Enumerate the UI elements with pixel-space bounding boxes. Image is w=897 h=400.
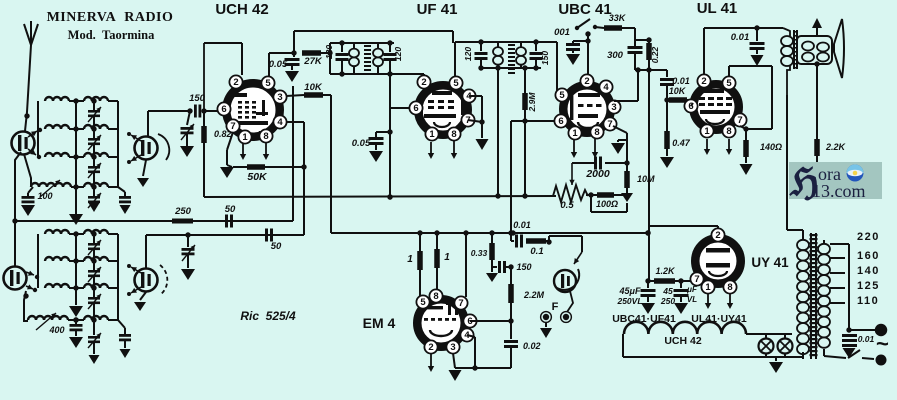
resistor 0.33 bbox=[489, 230, 494, 235]
tube UCH42 pin 1 bbox=[238, 130, 251, 143]
svg-text:33K: 33K bbox=[609, 13, 627, 23]
trimmer C1 top bank bbox=[93, 101, 95, 110]
svg-text:140: 140 bbox=[857, 265, 880, 277]
tube UF41 pin 4 bbox=[462, 89, 475, 102]
resistor 0.1 bbox=[526, 238, 546, 244]
tube UCH42 pin 4 bbox=[273, 115, 286, 128]
wire plate UBC41 bbox=[614, 100, 638, 102]
svg-text:250VL: 250VL bbox=[616, 296, 642, 306]
wire S1b to grid node bbox=[147, 111, 149, 137]
svg-text:0.22: 0.22 bbox=[650, 46, 660, 63]
coil L1b variable bbox=[84, 97, 108, 101]
tap 160 bbox=[830, 257, 845, 259]
wire row2 top bank bbox=[69, 128, 84, 130]
trimmer to ground bbox=[187, 111, 190, 125]
potentiometer 0.5 zigzag bbox=[553, 185, 588, 202]
wire lamp bottoms bbox=[623, 356, 803, 358]
terminal 2 bbox=[876, 355, 887, 366]
svg-text:400: 400 bbox=[48, 325, 64, 335]
wire 29M to UBC grid bbox=[525, 120, 555, 122]
capacitor 300 bbox=[628, 46, 643, 49]
wire AVC 250 line bbox=[15, 220, 293, 222]
wire UL41 grid bbox=[691, 103, 693, 106]
IF2 capacitor left 120 bbox=[480, 42, 482, 51]
wire UY41 pin7 bbox=[696, 282, 698, 285]
trimmer C3 top bank bbox=[93, 157, 95, 166]
resistor 2.2K bbox=[814, 139, 820, 156]
tube UCH42 envelope bbox=[226, 83, 280, 137]
resistor 1 (b) bbox=[436, 233, 438, 249]
svg-text:140Ω: 140Ω bbox=[760, 142, 782, 152]
wire to tone knob bbox=[548, 236, 550, 242]
wire row4 top bank bbox=[71, 186, 84, 188]
pilot lamp 1 bbox=[759, 339, 774, 354]
filament arrows UBC41 bbox=[573, 140, 575, 153]
resistor 0.22 bbox=[648, 40, 650, 43]
tap 125 bbox=[830, 287, 845, 289]
filament arrows UY41 bbox=[707, 294, 709, 304]
resistor 100ohm bbox=[586, 194, 597, 196]
trimmer row4 bottom bbox=[93, 320, 95, 335]
wiper arrow 2000 bbox=[571, 163, 573, 185]
wire EM4 pin6 bbox=[470, 320, 511, 322]
svg-text:UY 41: UY 41 bbox=[751, 255, 789, 270]
svg-text:220: 220 bbox=[857, 231, 880, 243]
resistor 27K bbox=[302, 50, 321, 56]
ground S2b bbox=[140, 292, 146, 300]
wire 10k down to bus bbox=[330, 95, 332, 233]
svg-text:10K: 10K bbox=[304, 82, 323, 93]
coil L4a bbox=[31, 183, 71, 187]
tube UCH42 pin 7 bbox=[226, 119, 239, 132]
resistor 1 (a) bbox=[419, 233, 421, 251]
wire heater left bbox=[622, 334, 624, 357]
resistor 50K bbox=[233, 166, 247, 168]
IF1 capacitor left 120 bbox=[341, 43, 343, 52]
filament arrows UCH42 bbox=[242, 143, 244, 155]
tube UY41 pin 8 bbox=[723, 280, 736, 293]
power transformer core bbox=[810, 233, 812, 359]
tube UBC41 electrodes bbox=[570, 92, 573, 120]
svg-text:100: 100 bbox=[37, 191, 52, 201]
svg-text:0.02: 0.02 bbox=[523, 341, 541, 351]
capacitor right column bbox=[118, 187, 125, 192]
tube UBC41 pin 2 bbox=[580, 74, 593, 87]
coil L2b variable bbox=[84, 125, 108, 129]
svg-text:001: 001 bbox=[554, 27, 570, 38]
tube UCH42 pin 8 bbox=[259, 129, 272, 142]
trimmer arrow C7 bbox=[88, 294, 101, 309]
svg-text:1: 1 bbox=[572, 128, 578, 139]
wire S2a to row4 bbox=[24, 291, 28, 321]
resistor 1.2K bbox=[648, 280, 654, 282]
tube UF41 pin 6 bbox=[409, 101, 422, 114]
IF1 frame bbox=[330, 42, 394, 44]
ground bottom bank bus bbox=[69, 306, 83, 317]
svg-text:45: 45 bbox=[662, 286, 673, 296]
wire tap 220 down bbox=[848, 244, 850, 330]
svg-text:0.47: 0.47 bbox=[672, 138, 691, 148]
svg-text:5: 5 bbox=[559, 90, 565, 101]
wire row1 bottom ext bbox=[148, 234, 304, 236]
svg-text:1: 1 bbox=[444, 252, 450, 263]
mains switch bbox=[824, 356, 846, 358]
svg-text:0.01: 0.01 bbox=[513, 220, 531, 230]
ground 140ohm bbox=[740, 164, 753, 175]
tap 110 bbox=[830, 302, 845, 304]
capacitor 45uF second bbox=[680, 282, 682, 288]
coil L8b bbox=[84, 316, 108, 320]
svg-text:6: 6 bbox=[413, 103, 418, 114]
capacitor 150 low bbox=[492, 266, 497, 268]
tube UL41 pin 8 bbox=[722, 124, 735, 137]
IF1 coil right bbox=[377, 43, 379, 49]
tube UF41 electrodes bbox=[432, 91, 452, 95]
wire heater right bbox=[746, 333, 792, 335]
tube UBC41 pin 3 bbox=[607, 100, 620, 113]
svg-text:2: 2 bbox=[584, 76, 589, 87]
rotary switch S2a bbox=[4, 267, 27, 290]
capacitor 0.05 AVC bbox=[376, 131, 390, 133]
wire feedback loop bbox=[590, 195, 592, 212]
rotary switch S1b bbox=[135, 137, 158, 160]
tube UBC41 pin 8 bbox=[590, 125, 603, 138]
svg-text:6: 6 bbox=[558, 116, 563, 127]
coil L7a bbox=[45, 284, 69, 288]
tube UL41 pin 6 bbox=[684, 99, 697, 112]
arrow row4 coil top bank bbox=[40, 180, 60, 197]
resistor 2.2M bbox=[510, 267, 512, 284]
switch S1b contact arrows bbox=[131, 135, 141, 141]
trimmer arrow C3 bbox=[88, 163, 101, 178]
tube EM4 pin 4 bbox=[460, 328, 473, 341]
IF1 capacitor right 120 bbox=[389, 43, 391, 52]
svg-text:5: 5 bbox=[453, 78, 459, 89]
wire knob to switch bbox=[567, 291, 573, 312]
svg-text:5: 5 bbox=[420, 297, 426, 308]
wire junction y70 bbox=[635, 69, 667, 71]
tube UF41 envelope bbox=[418, 85, 468, 135]
wire row1 top bank bbox=[69, 100, 84, 102]
svg-text:MINERVA RADIO: MINERVA RADIO bbox=[47, 10, 174, 25]
tube UY41 pin 7 bbox=[690, 272, 703, 285]
coil L5b bbox=[84, 230, 108, 234]
wire antenna lead bbox=[25, 45, 31, 131]
svg-text:2.2K: 2.2K bbox=[825, 142, 847, 152]
power transformer right winding bbox=[823, 240, 825, 244]
wire pin7 cathode bbox=[740, 126, 746, 129]
IF2 frame bbox=[455, 41, 557, 43]
tube EM4 pin 6 bbox=[463, 314, 476, 327]
ground EM4 pin3 bbox=[453, 353, 455, 368]
tube UL41 pin 1 bbox=[700, 124, 713, 137]
tube EM4 electrodes bbox=[427, 306, 443, 309]
tap 220 bbox=[830, 243, 849, 245]
svg-text:UL 41: UL 41 bbox=[697, 0, 738, 17]
capacitor 400 row bbox=[73, 317, 78, 322]
IF2 core bbox=[508, 44, 515, 46]
arrow row4 coil bottom bank bbox=[36, 313, 56, 330]
svg-text:160: 160 bbox=[857, 250, 880, 262]
wire row3 top bank bbox=[69, 156, 84, 158]
coil L4b variable bbox=[84, 183, 108, 187]
wire pin2 riser bbox=[587, 33, 589, 75]
trimmer arrow C6 bbox=[88, 267, 101, 282]
IF1 coil left bbox=[353, 43, 355, 49]
trimmer bottom AVC bbox=[187, 235, 189, 247]
capacitor 001 bbox=[573, 40, 588, 42]
wire 29M down x511 bbox=[511, 120, 525, 122]
wire IF2 sec down x498 bbox=[497, 68, 499, 196]
tube UF41 pin 8 bbox=[447, 127, 460, 140]
svg-text:300: 300 bbox=[607, 50, 624, 61]
wire AVC riser x293 bbox=[292, 86, 294, 221]
switch S1a contact arrows bbox=[28, 131, 37, 137]
coil L2a bbox=[45, 125, 69, 129]
wire row5 bbox=[69, 233, 84, 235]
svg-text:0.33: 0.33 bbox=[471, 248, 488, 258]
antenna bbox=[24, 24, 31, 45]
svg-text:0.05: 0.05 bbox=[352, 138, 371, 149]
filament arrows UF41 bbox=[430, 142, 432, 154]
wire right bus top bank bbox=[117, 101, 119, 187]
junction row3 bbox=[73, 154, 78, 159]
svg-text:2.2M: 2.2M bbox=[523, 290, 545, 300]
resistor 10K anode bbox=[286, 95, 304, 96]
svg-text:10M: 10M bbox=[637, 174, 655, 184]
wire IF1 to UF41 grid bbox=[423, 74, 425, 78]
svg-text:120: 120 bbox=[393, 47, 403, 61]
svg-text:7: 7 bbox=[607, 119, 612, 130]
tube UBC41 pin 5 bbox=[555, 88, 568, 101]
filament arrows UL41 bbox=[706, 139, 708, 150]
tube UCH42 pin 3 bbox=[273, 90, 286, 103]
svg-text:45μF: 45μF bbox=[619, 286, 641, 296]
svg-text:EM 4: EM 4 bbox=[363, 315, 396, 331]
svg-text:1: 1 bbox=[704, 126, 710, 137]
tube UF41 pin 5 bbox=[449, 76, 462, 89]
capacitor 100 bbox=[28, 187, 33, 193]
wire AVC x390 bbox=[389, 74, 391, 197]
svg-text:3: 3 bbox=[611, 102, 616, 113]
wire row6 bbox=[69, 260, 84, 262]
IF2 capacitor right 150 bbox=[535, 42, 537, 51]
capacitor 150 series bbox=[187, 108, 192, 113]
tube UF41 pin 1 bbox=[425, 127, 438, 140]
tube UY41 envelope bbox=[695, 238, 741, 284]
svg-text:250: 250 bbox=[660, 296, 675, 306]
svg-text:6: 6 bbox=[221, 104, 226, 115]
svg-text:UBC 41: UBC 41 bbox=[558, 1, 611, 18]
trimmer C5 bottom bank bbox=[93, 234, 95, 243]
resistor 33K bbox=[604, 25, 622, 31]
ground UBC41 cathode bbox=[618, 139, 627, 141]
wire UF41 pin4 bbox=[469, 95, 482, 97]
wire voice coil down bbox=[814, 61, 819, 66]
junction row4 bbox=[73, 184, 78, 189]
rotary switch S1a bbox=[12, 132, 35, 155]
wire pin7 EM4 bbox=[465, 233, 467, 297]
arrow under F switch bbox=[545, 322, 547, 327]
svg-text:VL: VL bbox=[687, 295, 697, 304]
tube UBC41 pin 1 bbox=[568, 126, 581, 139]
output transformer secondary voice coil bbox=[797, 36, 832, 64]
junction pot right bbox=[588, 192, 593, 197]
svg-text:0.1: 0.1 bbox=[530, 246, 543, 257]
coil L6a bbox=[45, 257, 69, 261]
tube UL41 pin 2 bbox=[697, 74, 710, 87]
svg-text:UCH 42: UCH 42 bbox=[664, 335, 702, 347]
svg-text:0.01: 0.01 bbox=[672, 76, 690, 86]
wire B+ down bbox=[786, 95, 788, 230]
svg-text:7: 7 bbox=[458, 298, 463, 309]
capacitor 0.01 tone bbox=[756, 28, 758, 41]
capacitor 50 upper bbox=[225, 215, 228, 228]
svg-text:150: 150 bbox=[516, 262, 531, 272]
watermark globe bbox=[847, 165, 864, 182]
svg-text:0.5: 0.5 bbox=[560, 200, 574, 211]
tube UCH42 pin 6 bbox=[217, 102, 230, 115]
svg-text:110: 110 bbox=[857, 295, 879, 307]
trimmer C4 top bank bbox=[93, 187, 95, 196]
wire row7 bbox=[69, 287, 84, 289]
wire left coil bus top bank bbox=[37, 101, 39, 157]
svg-text:120: 120 bbox=[324, 45, 334, 59]
svg-text:0.05: 0.05 bbox=[269, 59, 288, 70]
trimmer arrow C4 bbox=[88, 193, 101, 208]
tube UCH42 pin 5 bbox=[261, 76, 274, 89]
rotary switch S2b bbox=[135, 269, 158, 292]
arrow line cap bbox=[843, 348, 856, 358]
wire UF41 grid return bbox=[390, 107, 416, 109]
svg-text:2: 2 bbox=[233, 77, 238, 88]
wire center bus bottom bank bbox=[75, 234, 77, 305]
svg-text:8: 8 bbox=[433, 291, 438, 302]
wire UY41 cathode bbox=[648, 225, 718, 227]
tube UBC41 envelope bbox=[563, 85, 611, 133]
coil L5a bbox=[45, 230, 69, 234]
wire plate riser bbox=[293, 31, 295, 53]
watermark box bbox=[789, 162, 882, 199]
wire riser x304 bbox=[303, 122, 305, 235]
switch F contacts bbox=[543, 314, 549, 320]
svg-text:1: 1 bbox=[429, 129, 435, 140]
svg-text:50K: 50K bbox=[247, 171, 268, 183]
wire grid2 loop bbox=[203, 43, 205, 111]
resistor 0.82 bbox=[203, 111, 205, 126]
capacitor 0.01 coupling bbox=[666, 70, 668, 77]
ground cap right column bbox=[120, 205, 131, 214]
svg-text:2: 2 bbox=[428, 342, 433, 353]
switch S2b contact arrows bbox=[131, 267, 141, 273]
capacitor 45uF first bbox=[647, 282, 649, 288]
svg-text:7: 7 bbox=[737, 115, 742, 126]
switch 001 lever bbox=[575, 26, 579, 30]
junction trimmer bottom bbox=[185, 232, 190, 237]
svg-text:8: 8 bbox=[451, 129, 456, 140]
tube UL41 pin 7 bbox=[733, 113, 746, 126]
wire left coil bus bottom bank bbox=[37, 234, 39, 288]
wire UL41 screen loop bbox=[728, 66, 730, 77]
capacitor 0.01 line bbox=[842, 334, 857, 337]
tube UBC41 pin 6 bbox=[554, 114, 567, 127]
svg-text:UCH 42: UCH 42 bbox=[215, 1, 268, 18]
resistor 0.47 grid leak bbox=[666, 100, 668, 131]
svg-text:1.2K: 1.2K bbox=[655, 266, 676, 276]
svg-text:5: 5 bbox=[265, 78, 271, 89]
junction row1 bbox=[73, 98, 78, 103]
tube UY41 electrodes bbox=[706, 248, 730, 253]
svg-text:8: 8 bbox=[727, 282, 732, 293]
power transformer left winding bbox=[802, 237, 804, 240]
speaker cone bbox=[834, 19, 844, 78]
tube EM4 pin 8 bbox=[429, 289, 442, 302]
svg-text:100Ω: 100Ω bbox=[596, 199, 618, 209]
svg-text:1: 1 bbox=[407, 254, 413, 265]
IF2 coil left bbox=[497, 42, 499, 47]
terminal 1 bbox=[876, 325, 887, 336]
tube UY41 pin 2 bbox=[711, 228, 724, 241]
svg-text:Ric 525/4: Ric 525/4 bbox=[240, 309, 296, 323]
ground 0.33 bbox=[491, 267, 493, 272]
IF2 coil right bbox=[520, 42, 522, 47]
output transformer core bbox=[793, 30, 795, 69]
svg-text:150: 150 bbox=[540, 51, 550, 65]
ground 10M bbox=[621, 193, 633, 202]
svg-text:3: 3 bbox=[277, 92, 282, 103]
tube EM4 pin 3 bbox=[446, 340, 459, 353]
capacitor 0.05 screen bbox=[293, 53, 295, 57]
svg-text:0.01: 0.01 bbox=[858, 334, 875, 344]
coil L7b bbox=[84, 284, 108, 288]
svg-text:2.9M: 2.9M bbox=[527, 92, 537, 113]
wire stub S1a row3 bbox=[38, 156, 40, 158]
wire S1a to row4 bbox=[24, 154, 31, 187]
svg-text:0.01: 0.01 bbox=[731, 32, 750, 43]
svg-text:125: 125 bbox=[857, 280, 880, 292]
coil L3a bbox=[45, 153, 69, 157]
wire center bus top bank bbox=[75, 101, 77, 214]
tube UY41 pin 1 bbox=[701, 280, 714, 293]
wire left edge bus bbox=[15, 152, 21, 267]
svg-text:10K: 10K bbox=[669, 86, 687, 96]
svg-text:8: 8 bbox=[263, 131, 268, 142]
svg-text:2: 2 bbox=[715, 230, 720, 241]
junction row2 bbox=[73, 126, 78, 131]
tube UBC41 pin 7 bbox=[603, 117, 616, 130]
resistor 10M bbox=[626, 163, 628, 171]
svg-text:50: 50 bbox=[271, 241, 282, 252]
svg-text:7: 7 bbox=[694, 274, 699, 285]
junction row5 bbox=[73, 231, 78, 236]
tube EM4 pin 5 bbox=[416, 295, 429, 308]
wire cathode x627 bbox=[613, 126, 627, 133]
wire row8 bbox=[68, 319, 84, 321]
wire stub S1a row2 bbox=[38, 129, 41, 130]
ground UCH42 cathode bbox=[227, 132, 233, 150]
coil L6b bbox=[84, 257, 108, 261]
trimmer arrow C2 bbox=[88, 135, 101, 150]
trimmer arrow C1 bbox=[88, 107, 101, 122]
svg-text:50: 50 bbox=[225, 204, 236, 215]
tube EM4 pin 2 bbox=[424, 340, 437, 353]
tube UL41 envelope bbox=[693, 84, 739, 130]
svg-text:F: F bbox=[552, 301, 559, 313]
svg-text:Mod. Taormina: Mod. Taormina bbox=[68, 28, 155, 42]
wire 33k down bbox=[634, 28, 636, 46]
resistor 29M bbox=[524, 68, 526, 93]
svg-text:4: 4 bbox=[603, 82, 609, 93]
